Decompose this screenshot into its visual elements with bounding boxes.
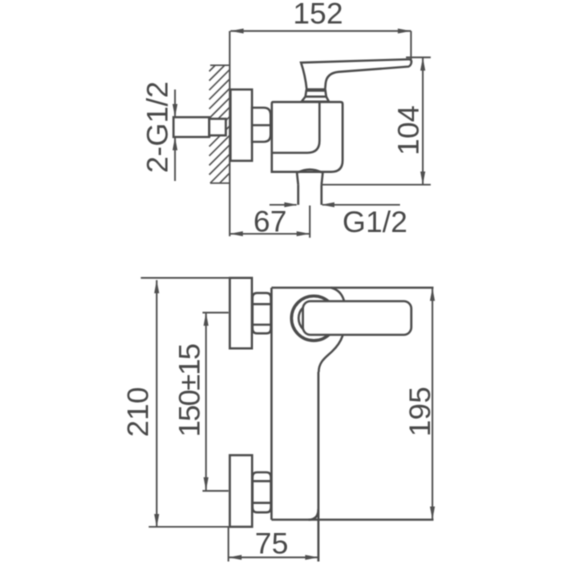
- wall hatch: [209, 65, 229, 183]
- cartridge outer circle: [292, 296, 337, 341]
- svg-text:104: 104: [393, 105, 426, 155]
- body inner contour: [272, 102, 320, 153]
- svg-text:150±15: 150±15: [174, 344, 207, 437]
- dimension 195 line: [430, 288, 435, 520]
- faucet body right edge + 75 extension: [317, 372, 319, 562]
- dimension 210 line: [154, 280, 159, 527]
- extension line top of 104: [406, 56, 431, 58]
- svg-text:2-G1/2: 2-G1/2: [142, 81, 175, 173]
- extension line right of 152: [410, 31, 412, 61]
- extension line 150 top: [203, 312, 229, 314]
- top escutcheon (front): [230, 278, 252, 349]
- extension line 210 top: [141, 277, 230, 279]
- svg-text:195: 195: [404, 387, 437, 437]
- hex nut (side view): [252, 108, 271, 142]
- body bottom-right corner arc: [309, 509, 319, 520]
- nipple square head: [209, 119, 226, 136]
- extension line left (wall face): [229, 31, 231, 236]
- escutcheon plate (side view): [231, 90, 253, 161]
- G1/2 pointer arrows at pipe: [270, 202, 401, 207]
- dimension 67 line: [230, 231, 310, 236]
- body bottom edge + 195 bottom extension: [272, 519, 434, 521]
- dimension 75 line: [228, 555, 318, 560]
- svg-text:152: 152: [293, 0, 343, 31]
- outlet flare: [297, 170, 323, 185]
- faucet body left edge (front): [270, 288, 272, 520]
- svg-text:67: 67: [253, 206, 286, 239]
- handle collar ring: [305, 91, 326, 97]
- dimension 2-G1/2: [173, 90, 178, 182]
- handle lever (front): [303, 301, 411, 335]
- pipe nipple: [174, 117, 210, 137]
- 75 extension left: [227, 527, 229, 562]
- cartridge inner circle: [299, 303, 329, 333]
- body right shoulder curve (behind lever): [319, 288, 346, 372]
- dimension 150±15 line: [204, 313, 209, 491]
- extension line 210 bottom: [149, 526, 230, 528]
- handle lever (side view): [301, 59, 411, 89]
- top hex nut (front): [253, 293, 271, 333]
- bottom escutcheon (front): [230, 455, 252, 527]
- svg-text:210: 210: [122, 387, 155, 437]
- faucet body (side view): [272, 102, 343, 172]
- dimension 104 line: [420, 57, 425, 184]
- dimension 152 line: [230, 29, 411, 34]
- svg-text:G1/2: G1/2: [342, 206, 407, 239]
- extension line 150 bottom: [203, 490, 229, 492]
- body top edge + 195 top extension: [272, 287, 434, 289]
- outlet pipe: [298, 185, 321, 205]
- pipe centerline extension: [309, 206, 311, 238]
- handle skirt: [302, 97, 329, 102]
- bottom hex nut (front): [253, 472, 271, 512]
- svg-text:75: 75: [255, 528, 288, 561]
- extension line bottom of 104: [322, 184, 431, 186]
